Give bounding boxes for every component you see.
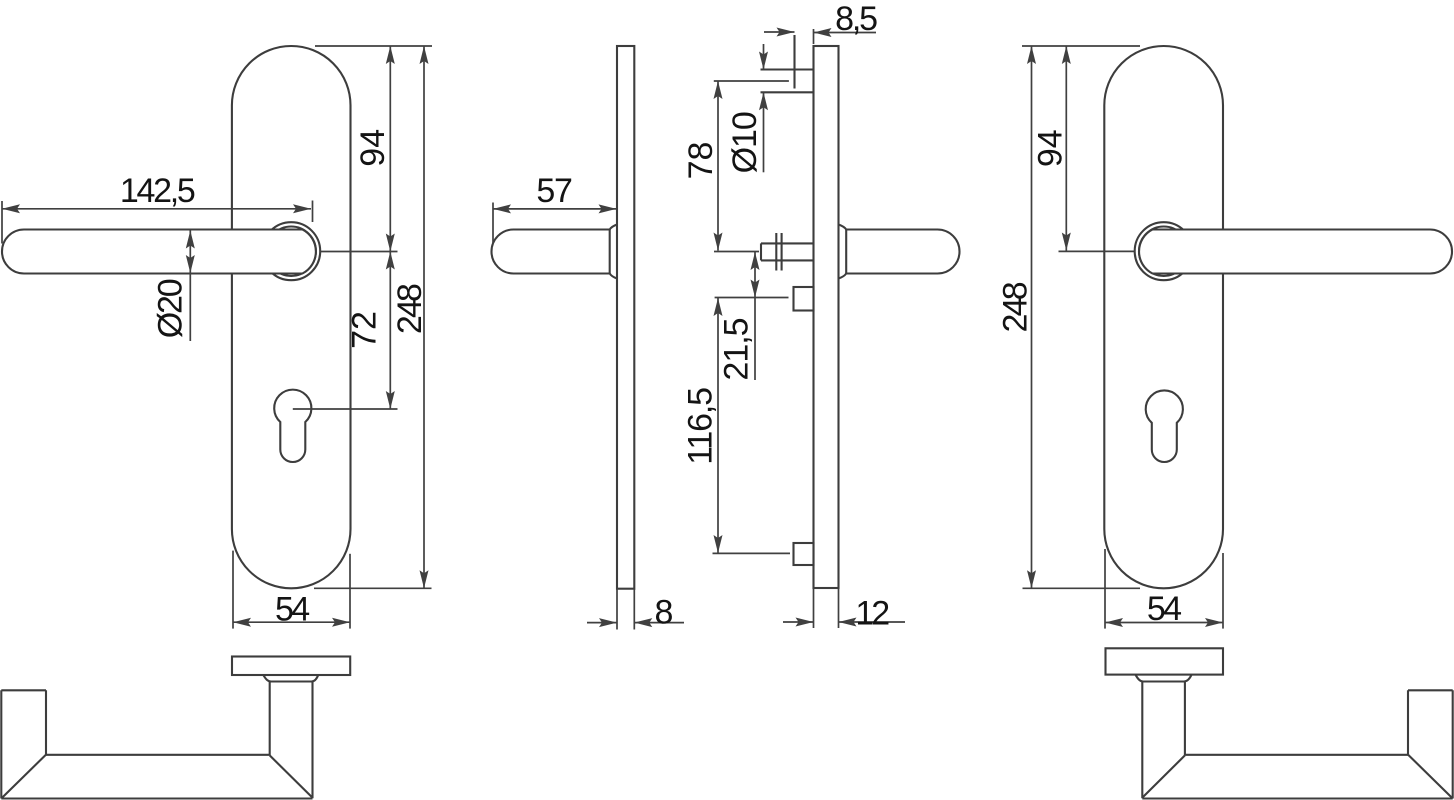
svg-text:116,5: 116,5 xyxy=(682,388,720,465)
svg-text:8,5: 8,5 xyxy=(835,0,877,38)
svg-text:78: 78 xyxy=(682,142,720,180)
svg-text:21,5: 21,5 xyxy=(718,318,756,380)
svg-text:54: 54 xyxy=(1147,590,1181,628)
svg-text:Ø20: Ø20 xyxy=(152,279,190,338)
svg-text:Ø10: Ø10 xyxy=(726,112,764,173)
svg-text:54: 54 xyxy=(275,591,309,629)
svg-text:57: 57 xyxy=(536,172,572,210)
svg-text:94: 94 xyxy=(1032,129,1070,167)
svg-text:72: 72 xyxy=(346,311,384,349)
svg-text:248: 248 xyxy=(997,282,1035,332)
svg-text:94: 94 xyxy=(354,129,392,167)
svg-text:8: 8 xyxy=(655,593,674,631)
svg-text:248: 248 xyxy=(391,284,429,334)
svg-text:12: 12 xyxy=(855,595,889,633)
svg-text:142,5: 142,5 xyxy=(120,172,195,210)
